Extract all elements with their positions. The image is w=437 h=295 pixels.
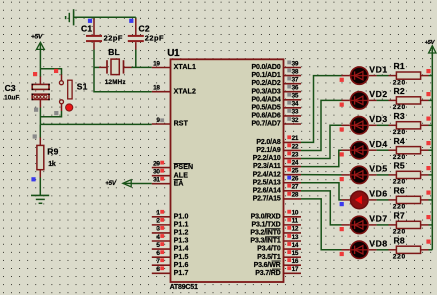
wire C1 leg to crystal left [94, 66, 99, 68]
svg-text:38: 38 [292, 68, 299, 75]
svg-text:P0.2/AD2: P0.2/AD2 [251, 80, 280, 87]
wire RST net to chip pin 9 [40, 123, 151, 125]
svg-text:P0.7/AD7: P0.7/AD7 [251, 121, 280, 128]
svg-text:25: 25 [292, 167, 299, 174]
svg-text:P0.1/AD1: P0.1/AD1 [251, 72, 280, 79]
pin 10 (right) [284, 216, 302, 218]
power terminal +5V (EA) [123, 180, 131, 187]
pin 19 (left) [152, 67, 171, 69]
svg-text:21: 21 [292, 135, 299, 142]
marker (gray) left 2 [54, 111, 58, 115]
svg-text:VD7: VD7 [369, 214, 387, 224]
svg-text:+5V: +5V [31, 34, 44, 41]
svg-text:P2.5/A13: P2.5/A13 [253, 179, 281, 186]
svg-text:15: 15 [292, 250, 299, 257]
pin 34 (right) [284, 107, 302, 109]
svg-text:P1.0: P1.0 [174, 213, 189, 220]
svg-text:P2.0/A8: P2.0/A8 [256, 139, 280, 146]
svg-text:24: 24 [292, 159, 299, 166]
svg-text:28: 28 [292, 192, 299, 199]
wire P2.3 to VD4 [301, 150, 342, 166]
node marker at VD4 input [340, 152, 344, 156]
pin 37 (right) [284, 83, 302, 85]
wire C2 bottom to XTAL1 net [135, 50, 137, 68]
wire VD3 to R3 [377, 124, 389, 126]
power terminal +5V (top right) [429, 46, 436, 53]
wire C3 bottom to RST net [39, 99, 41, 107]
capacitor C1 [93, 17, 95, 19]
wire crystal right to XTAL1 pin [131, 66, 152, 68]
wire VD5 to R5 [377, 174, 389, 176]
svg-text:P2.2/A10: P2.2/A10 [253, 155, 281, 162]
svg-text:P1.6: P1.6 [174, 262, 189, 269]
svg-text:P0.0/AD0: P0.0/AD0 [251, 64, 280, 71]
svg-text:P3.2/INT0: P3.2/INT0 [250, 230, 280, 237]
svg-text:VD6: VD6 [369, 189, 387, 199]
svg-text:+5V: +5V [425, 40, 436, 46]
svg-text:23: 23 [292, 151, 299, 158]
resistor R5 [389, 174, 397, 176]
wire R7 to +5V rail [429, 224, 433, 226]
wire C1 bottom / crystal left / XTAL2 net [94, 50, 152, 92]
svg-text:8: 8 [156, 266, 160, 273]
wire R8 to +5V rail [429, 249, 433, 251]
wire P2.5 to VD6 [301, 183, 342, 200]
capacitor C2 [135, 17, 137, 19]
pin 15 (right) [284, 256, 302, 258]
pin 14 (right) [284, 248, 302, 250]
LED VD5 [342, 174, 350, 176]
svg-text:ALE: ALE [174, 172, 189, 179]
svg-text:P2.6/A14: P2.6/A14 [253, 187, 281, 194]
pin 2 (left) [152, 224, 171, 226]
node marker (red) on C3 leg [33, 72, 37, 76]
svg-text:13: 13 [292, 234, 299, 241]
node marker at VD8 input [340, 252, 344, 256]
svg-text:33: 33 [292, 109, 299, 116]
svg-text:P2.7/A15: P2.7/A15 [253, 195, 281, 202]
wire VD6 to R6 [377, 199, 389, 201]
svg-text:12: 12 [292, 226, 299, 233]
svg-text:VD2: VD2 [369, 89, 387, 99]
svg-text:1k: 1k [48, 161, 56, 168]
wire ground rail to C1/C2 tops [74, 16, 136, 18]
svg-text:37: 37 [292, 76, 299, 83]
wire R3 to +5V rail [429, 124, 433, 126]
pin 22 (right) [284, 149, 302, 151]
wire P2.7 to VD8 [301, 199, 342, 250]
LED VD3 [342, 124, 350, 126]
svg-text:P1.4: P1.4 [174, 246, 189, 253]
svg-text:18: 18 [153, 85, 160, 92]
pin 9 (left) [152, 123, 171, 125]
svg-text:26: 26 [292, 176, 299, 183]
svg-text:22pF: 22pF [104, 34, 123, 43]
svg-text:1: 1 [156, 210, 160, 217]
svg-text:P2.4/A12: P2.4/A12 [253, 171, 281, 178]
svg-text:P1.3: P1.3 [174, 238, 189, 245]
svg-text:P0.5/AD5: P0.5/AD5 [251, 104, 280, 111]
pin 3 (left) [152, 232, 171, 234]
svg-text:P3.1/TXD: P3.1/TXD [251, 221, 280, 228]
svg-text:3: 3 [156, 226, 160, 233]
svg-text:2: 2 [156, 218, 160, 225]
wire +5V rail (right) [431, 53, 433, 250]
resistor R3 [389, 124, 397, 126]
pin 18 (left) [152, 91, 171, 93]
svg-text:22pF: 22pF [145, 34, 164, 43]
wire node to S1 top [40, 69, 61, 75]
pin 29 (left) [152, 167, 171, 169]
pin 7 (left) [152, 264, 171, 266]
ground (bottom) [31, 194, 49, 196]
resistor R7 [389, 224, 397, 226]
svg-text:C1: C1 [81, 23, 92, 33]
svg-text:VD1: VD1 [369, 64, 387, 74]
node marker at VD5 input [340, 177, 344, 181]
capacitor C3 (polarized) [32, 84, 49, 89]
pin 13 (right) [284, 240, 302, 242]
pin 30 (left) [152, 175, 171, 177]
pin 35 (right) [284, 99, 302, 101]
svg-text:C2: C2 [139, 23, 150, 33]
svg-text:XTAL2: XTAL2 [174, 88, 196, 95]
svg-text:P3.3/INT1: P3.3/INT1 [250, 238, 280, 245]
pin 11 (right) [284, 224, 302, 226]
crystal BL [99, 66, 107, 68]
wire R2 to +5V rail [429, 99, 433, 101]
svg-text:7: 7 [156, 258, 160, 265]
wire P2.4 to VD5 [301, 174, 342, 176]
svg-text:6: 6 [156, 250, 160, 257]
svg-text:P0.4/AD4: P0.4/AD4 [251, 96, 280, 103]
node marker at VD6 input [340, 202, 344, 206]
svg-text:30: 30 [153, 169, 160, 176]
svg-text:35: 35 [292, 93, 299, 100]
wire R5 to +5V rail [429, 174, 433, 176]
svg-text:VD8: VD8 [369, 239, 387, 249]
LED VD6 [342, 199, 350, 201]
svg-text:R1: R1 [394, 61, 405, 71]
svg-text:P2.1/A9: P2.1/A9 [256, 147, 280, 154]
pin 16 (right) [284, 264, 302, 266]
svg-text:+5V: +5V [105, 180, 117, 187]
pin 28 (right) [284, 198, 302, 200]
wire +5V to EA pin 31 [131, 183, 152, 185]
svg-text:16: 16 [292, 258, 299, 265]
wire S1 bottom to C3 leg [61, 104, 63, 111]
marker (gray) left 3 [33, 134, 37, 138]
pin 8 (left) [152, 272, 171, 274]
wire VD1 to R1 [377, 75, 389, 77]
svg-text:R5: R5 [394, 161, 405, 171]
svg-text:R8: R8 [394, 235, 405, 245]
svg-text:P0.3/AD3: P0.3/AD3 [251, 88, 280, 95]
wire VD2 to R2 [377, 99, 389, 101]
svg-text:9: 9 [156, 117, 160, 124]
node marker (blue) at C1 top [88, 19, 92, 23]
svg-text:P1.2: P1.2 [174, 230, 189, 237]
pin 33 (right) [284, 115, 302, 117]
svg-text:R4: R4 [394, 136, 405, 146]
svg-text:BL: BL [108, 47, 120, 57]
pin 1 (left) [152, 216, 171, 218]
svg-text:39: 39 [292, 60, 299, 67]
svg-text:29: 29 [153, 160, 160, 167]
svg-text:5: 5 [156, 242, 160, 249]
resistor R6 [389, 199, 397, 201]
node marker at VD7 input [340, 227, 344, 231]
svg-text:P3.0/RXD: P3.0/RXD [251, 213, 281, 220]
pin 23 (right) [284, 158, 302, 160]
wire RST net to R9 [39, 124, 41, 138]
node marker (red) at R5 rail [426, 166, 430, 170]
svg-text:10uF: 10uF [4, 95, 20, 102]
svg-text:10: 10 [292, 210, 299, 217]
pin 38 (right) [284, 75, 302, 77]
ground (top, rotated) [73, 9, 75, 25]
junction dot (red) below S1 [66, 104, 73, 111]
svg-text:36: 36 [292, 85, 299, 92]
node marker (red) at R6 rail [426, 191, 430, 195]
node marker (red) at R7 rail [426, 215, 430, 219]
node marker (red) at R3 rail [426, 117, 430, 121]
wire P2.0 to VD1 [301, 76, 342, 143]
resistor R4 [389, 149, 397, 151]
pin 32 (right) [284, 123, 302, 125]
node marker (blue) near ground [31, 177, 35, 181]
svg-text:22: 22 [292, 143, 299, 150]
svg-text:R9: R9 [47, 147, 58, 157]
svg-text:34: 34 [292, 101, 299, 108]
svg-text:R7: R7 [394, 211, 405, 221]
svg-text:P1.5: P1.5 [174, 254, 189, 261]
pin 24 (right) [284, 166, 302, 168]
wire node to C3 top [39, 69, 41, 77]
node marker (red) at R2 rail [426, 92, 430, 96]
wire P2.1 to VD2 [301, 100, 342, 150]
resistor R1 [389, 75, 397, 77]
node marker (red) at R8 rail [426, 240, 430, 244]
svg-text:220: 220 [393, 254, 406, 261]
pin 26 (right) [284, 182, 302, 184]
pin 25 (right) [284, 174, 302, 176]
marker (gray) left 1 [34, 108, 38, 112]
svg-text:11: 11 [292, 218, 299, 225]
node marker at VD3 input [340, 127, 344, 131]
resistor R9 [37, 145, 44, 169]
svg-text:VD5: VD5 [369, 164, 387, 174]
svg-text:R6: R6 [394, 186, 405, 196]
svg-text:P1.1: P1.1 [174, 221, 189, 228]
svg-text:AT89C51: AT89C51 [170, 284, 198, 291]
svg-text:P1.7: P1.7 [174, 270, 189, 277]
wire R4 to +5V rail [429, 149, 433, 151]
LED VD7 [342, 224, 350, 226]
wire +5V down to node [39, 43, 41, 69]
svg-text:U1: U1 [167, 48, 180, 59]
wire R9 to ground [39, 170, 41, 178]
svg-text:VD3: VD3 [369, 114, 387, 124]
svg-text:19: 19 [153, 60, 160, 67]
svg-text:17: 17 [292, 266, 299, 273]
IC U1 AT89C51 body [171, 59, 284, 282]
svg-text:R2: R2 [394, 86, 405, 96]
svg-text:4: 4 [156, 234, 160, 241]
switch S1 [59, 81, 63, 85]
svg-text:31: 31 [153, 177, 160, 184]
pin 21 (right) [284, 141, 302, 143]
wire VD8 to R8 [377, 249, 389, 251]
svg-text:P3.6/WR: P3.6/WR [254, 262, 281, 269]
power terminal +5V (top left) [37, 42, 45, 49]
svg-text:14: 14 [292, 242, 299, 249]
node marker at VD2 input [340, 103, 344, 107]
wire P2.6 to VD7 [301, 191, 342, 225]
svg-text:P2.3/A11: P2.3/A11 [253, 163, 281, 170]
svg-text:R3: R3 [394, 111, 405, 121]
resistor R2 [389, 99, 397, 101]
svg-text:P3.5/T1: P3.5/T1 [257, 254, 281, 261]
LED VD4 [342, 149, 350, 151]
svg-text:C3: C3 [5, 83, 16, 93]
pin 4 (left) [152, 240, 171, 242]
LED VD8 [342, 249, 350, 251]
pin 6 (left) [152, 256, 171, 258]
node marker (red) at R4 rail [426, 141, 430, 145]
svg-text:32: 32 [292, 117, 299, 124]
pin 12 (right) [284, 232, 302, 234]
svg-text:12MHz: 12MHz [105, 79, 126, 86]
svg-text:P3.4/T0: P3.4/T0 [257, 246, 281, 253]
node marker (red) near S1 corner [54, 69, 58, 73]
LED VD1 [342, 75, 350, 77]
svg-text:PSEN: PSEN [174, 164, 194, 171]
svg-text:VD4: VD4 [369, 139, 387, 149]
svg-text:S1: S1 [77, 82, 88, 92]
pin 5 (left) [152, 248, 171, 250]
wire VD7 to R7 [377, 224, 389, 226]
pin 39 (right) [284, 67, 302, 69]
wire R6 to +5V rail [429, 199, 433, 201]
node marker (red) at R1 rail [426, 69, 430, 73]
pin 27 (right) [284, 190, 302, 192]
LED VD2 [342, 99, 350, 101]
svg-text:P0.6/AD6: P0.6/AD6 [251, 113, 280, 120]
svg-text:27: 27 [292, 184, 299, 191]
wire P2.2 to VD3 [301, 125, 342, 158]
resistor R8 [389, 249, 397, 251]
wire R1 to +5V rail [429, 75, 433, 77]
wire VD4 to R4 [377, 149, 389, 151]
svg-text:P3.7/RD: P3.7/RD [255, 270, 280, 277]
node marker at VD1 input [340, 78, 344, 82]
pin 36 (right) [284, 91, 302, 93]
svg-text:RST: RST [174, 121, 189, 128]
svg-text:XTAL1: XTAL1 [174, 64, 196, 71]
pin 17 (right) [284, 272, 302, 274]
svg-text:EA: EA [174, 180, 184, 187]
node marker (blue) at C2 top [129, 19, 133, 23]
pin 31 (left) [152, 183, 171, 185]
